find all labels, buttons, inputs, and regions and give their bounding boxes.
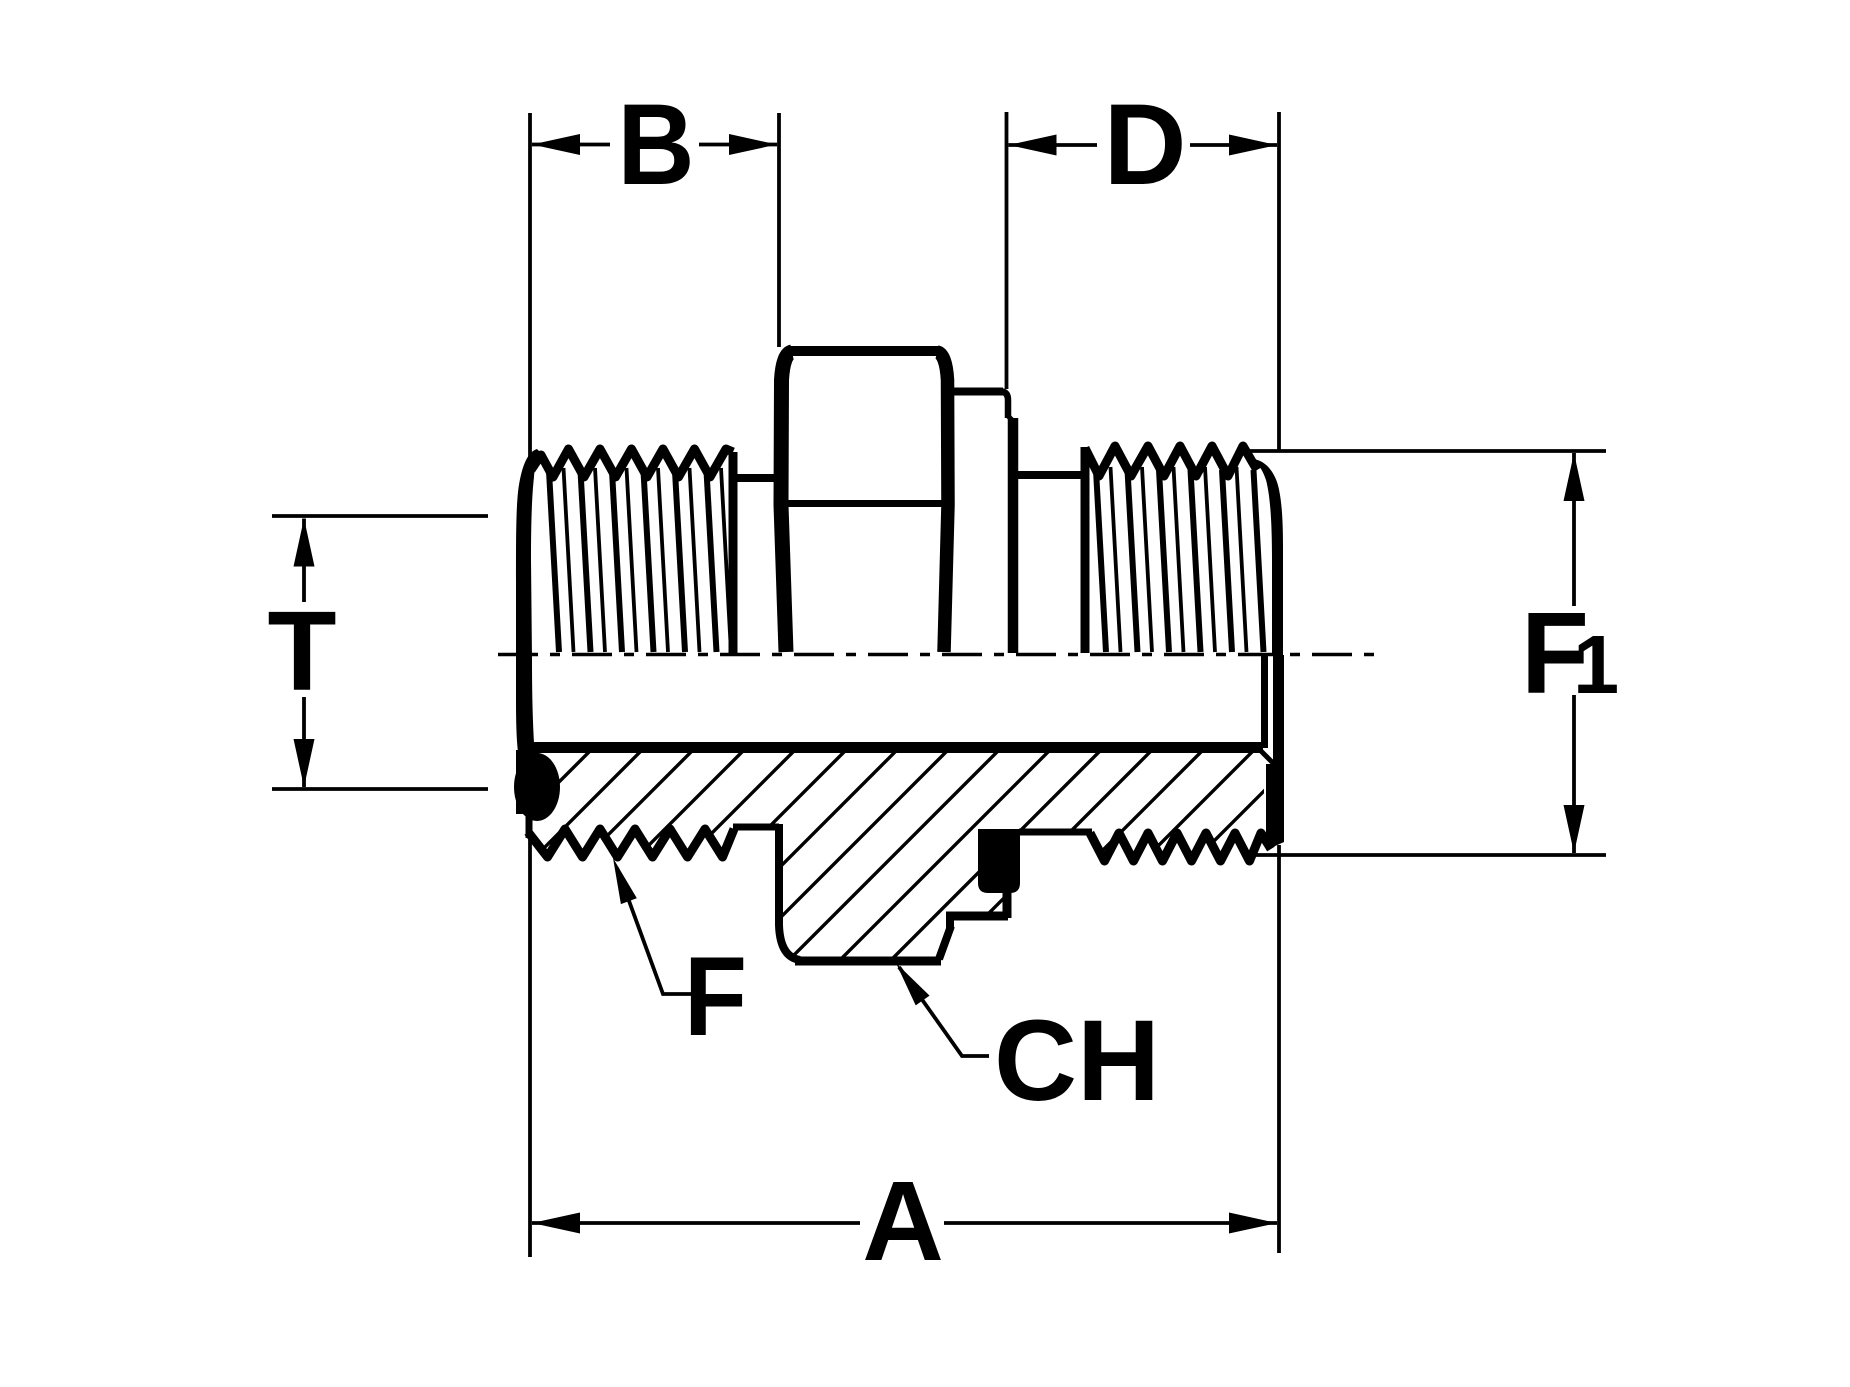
dimension A line left — [532, 1221, 860, 1225]
hex mid line — [785, 500, 945, 507]
dimension B left extension line — [528, 113, 532, 458]
bottom-left section thread zigzag — [528, 829, 734, 857]
left thread crest zigzag — [531, 449, 733, 477]
left shank line — [734, 474, 784, 482]
dimension T arrows — [294, 519, 315, 788]
step vertical — [946, 914, 954, 930]
collar washer right edge upper — [1002, 392, 1008, 419]
left body edge — [516, 449, 540, 758]
dimension D line left — [1009, 143, 1098, 147]
collar washer step — [1007, 415, 1013, 421]
dimension B right extension line — [777, 113, 781, 347]
right thread flank lines — [1096, 467, 1264, 652]
svg-text:D: D — [1103, 81, 1186, 209]
leader CH line — [899, 967, 989, 1056]
step horizontal — [946, 912, 1008, 921]
collar washer top edge — [948, 388, 1003, 396]
hex nut right edge — [937, 352, 948, 652]
seal lip vertical — [1003, 888, 1012, 918]
left body edge lower — [526, 808, 533, 838]
left thread flank lines — [549, 468, 731, 652]
leader CH arrow — [889, 958, 929, 1005]
right root line — [1019, 829, 1092, 836]
left root flat — [733, 824, 779, 831]
svg-text:F: F — [684, 934, 747, 1059]
dimension F1 bottom extension line — [1243, 853, 1606, 857]
svg-text:1: 1 — [1573, 618, 1619, 711]
dimension F1 line upper — [1572, 453, 1576, 606]
dimension T line lower — [302, 697, 306, 787]
svg-text:A: A — [862, 1158, 944, 1284]
svg-text:T: T — [267, 588, 336, 714]
leader F line — [617, 868, 692, 994]
seal — [978, 829, 1020, 893]
collar washer right edge lower — [1008, 418, 1019, 653]
dimension T bottom extension line — [272, 787, 488, 791]
dimension D left extension line — [1005, 112, 1009, 389]
dimension D line right — [1190, 143, 1277, 147]
right body end edge — [1251, 459, 1283, 656]
label B — [617, 79, 694, 208]
dimension F1 line lower — [1572, 695, 1576, 853]
right outer edge below centerline — [1266, 655, 1284, 850]
dimension D arrows — [1009, 135, 1278, 156]
centerline — [498, 653, 1386, 657]
hex nut top edge — [789, 346, 940, 356]
left thread end line — [729, 452, 738, 653]
dimension F1 arrows — [1564, 453, 1585, 853]
dimension A right extension line — [1277, 845, 1281, 1253]
right thread crest zigzag — [1085, 446, 1257, 476]
dimension T top extension line — [272, 514, 488, 518]
dimension B line right — [699, 143, 777, 147]
dimension D right extension line — [1277, 112, 1281, 452]
dimension T line upper — [302, 519, 306, 603]
svg-text:CH: CH — [994, 997, 1160, 1125]
dimension A arrows — [532, 1213, 1277, 1234]
O-ring — [514, 753, 560, 821]
leader F arrow — [605, 855, 637, 904]
right inner edge below centerline — [1261, 655, 1268, 748]
right thread start line — [1081, 447, 1090, 653]
svg-text:B: B — [617, 79, 694, 208]
dimension A line right — [944, 1221, 1277, 1225]
hex section bottom flat — [795, 957, 941, 966]
dimension F1 top extension line — [1245, 449, 1606, 453]
section top heavy line — [532, 742, 1263, 753]
right shank line — [1016, 471, 1085, 479]
dimension B arrows — [532, 134, 777, 155]
right corner chamfer — [1261, 751, 1275, 765]
hex section left step — [779, 824, 800, 960]
bottom-right section thread zigzag — [1090, 833, 1271, 861]
hex section chamfer — [939, 926, 951, 959]
dimension A left extension line — [528, 838, 532, 1257]
hex nut left edge — [781, 352, 792, 652]
dimension B line left — [532, 143, 610, 147]
